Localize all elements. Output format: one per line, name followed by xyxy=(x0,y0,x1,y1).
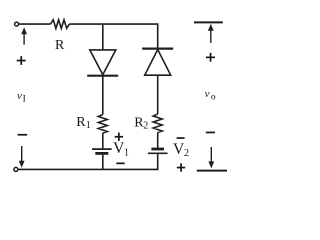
bottom rail wire with corner up to V2 xyxy=(18,154,158,169)
input terminal (top-left) xyxy=(15,22,19,26)
wire battery V1 to bottom rail xyxy=(102,155,104,170)
svg-text:1: 1 xyxy=(124,147,129,158)
arrow (top-right, pointing up) xyxy=(208,24,214,43)
battery V1 (+ on top) xyxy=(92,149,112,153)
minus sign (right, output polarity) xyxy=(206,132,215,134)
diode D1 (conducts downward) xyxy=(87,50,118,76)
resistor R2 xyxy=(153,114,162,133)
resistor R xyxy=(51,20,70,29)
wire from R along top to D2 branch corner xyxy=(69,24,157,48)
output terminal bar (bottom-right) xyxy=(197,170,227,172)
svg-text:I: I xyxy=(23,94,26,104)
plus sign (battery V1 polarity) xyxy=(115,133,123,141)
svg-text:2: 2 xyxy=(143,121,148,132)
arrow (bottom-left, pointing down) xyxy=(19,146,25,168)
minus sign (battery V1 polarity) xyxy=(116,163,124,165)
minus sign (battery V2 polarity) xyxy=(177,137,185,139)
svg-text:v: v xyxy=(205,88,210,100)
battery V2 (reversed, - on top) xyxy=(148,149,168,153)
plus sign (battery V2 polarity) xyxy=(177,163,185,171)
arrow (top-left, pointing up) xyxy=(21,27,27,44)
wire D1 cathode to R1 xyxy=(102,76,104,115)
plus sign (right, output polarity) xyxy=(206,53,215,62)
arrow (bottom-right, pointing down) xyxy=(208,147,214,168)
output terminal bar (top-right) xyxy=(194,21,223,23)
resistor R1 xyxy=(98,115,107,134)
svg-text:R: R xyxy=(55,38,65,53)
wire R2 to battery V2 xyxy=(157,133,159,149)
svg-text:o: o xyxy=(211,92,216,102)
wire R1 to battery V1 xyxy=(102,133,104,148)
wire from top-left terminal to resistor R xyxy=(19,23,51,25)
input terminal (bottom-left) xyxy=(14,167,18,171)
wire D2 anode to R2 xyxy=(157,75,159,114)
svg-text:1: 1 xyxy=(86,120,91,131)
svg-text:2: 2 xyxy=(184,148,189,159)
svg-text:R: R xyxy=(76,115,86,130)
svg-text:v: v xyxy=(17,90,22,102)
diode D2 (conducts upward) xyxy=(142,49,173,76)
minus sign (left, input polarity) xyxy=(18,134,27,136)
plus sign (left, input polarity) xyxy=(17,56,26,65)
wire branch to diode D1 anode xyxy=(102,24,104,50)
